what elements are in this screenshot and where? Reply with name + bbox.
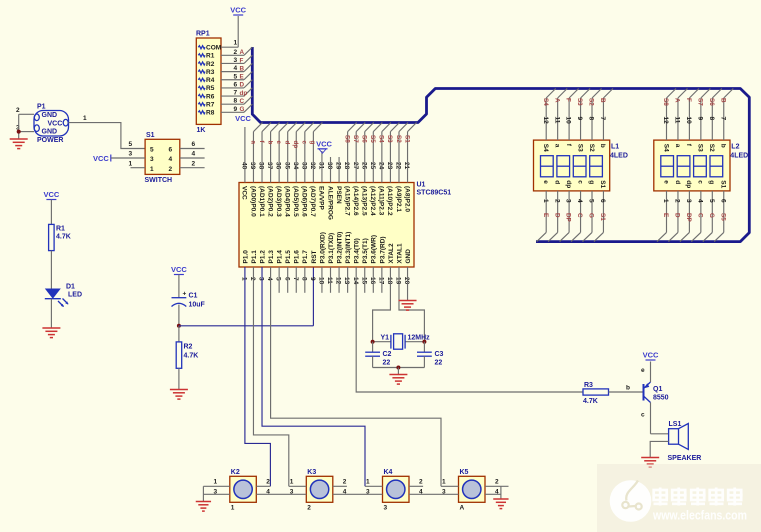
svg-text:36: 36	[275, 162, 282, 170]
svg-text:(A15)P2.7: (A15)P2.7	[343, 186, 350, 216]
wire L1 pin10 to bus (net F)	[565, 89, 579, 141]
svg-text:(A12)P2.4: (A12)P2.4	[369, 186, 376, 216]
svg-text:1: 1	[83, 115, 87, 122]
svg-text:SPEAKER: SPEAKER	[668, 455, 702, 462]
svg-text:A: A	[674, 98, 681, 103]
svg-text:2: 2	[343, 479, 347, 486]
svg-text:2: 2	[419, 479, 423, 486]
svg-text:(AD2)P0.2: (AD2)P0.2	[266, 186, 273, 217]
svg-text:S7: S7	[352, 135, 359, 143]
wire U1 pin13 P3.3 stub	[347, 267, 349, 293]
svg-text:18: 18	[386, 277, 393, 285]
svg-text:1: 1	[129, 160, 133, 167]
wire U1 pin10 P3.0 stub	[321, 267, 323, 293]
svg-text:POWER: POWER	[37, 137, 63, 144]
svg-text:13: 13	[343, 277, 350, 285]
svg-text:RP1: RP1	[196, 31, 210, 38]
wire node to R2	[178, 326, 180, 342]
pushbutton K3	[306, 469, 333, 512]
svg-text:35: 35	[283, 162, 290, 170]
svg-text:S6: S6	[361, 135, 368, 143]
svg-text:16: 16	[369, 277, 376, 285]
wire RP1 pin3 to bus (net F)	[221, 55, 252, 64]
svg-text:S2: S2	[588, 144, 595, 152]
svg-text:12: 12	[662, 117, 669, 125]
svg-text:PSEN: PSEN	[335, 186, 342, 204]
svg-text:40: 40	[241, 162, 248, 170]
U1 pin 23 number	[386, 162, 393, 170]
wire U1 pin22 P2.1 to bus (net S2)	[395, 123, 408, 183]
svg-text:D: D	[674, 213, 681, 218]
wire U1 pin30 ALE stub	[330, 157, 332, 183]
svg-text:S1: S1	[146, 132, 155, 139]
svg-text:S8: S8	[343, 135, 350, 143]
svg-text:(AD1)P0.1: (AD1)P0.1	[258, 186, 265, 217]
svg-text:d: d	[674, 180, 681, 184]
svg-text:2: 2	[16, 107, 20, 114]
svg-text:1: 1	[150, 166, 154, 173]
svg-text:S8: S8	[662, 98, 669, 106]
ground (crystal)	[389, 375, 407, 385]
svg-text:29: 29	[335, 162, 342, 170]
pushbutton K2	[230, 469, 256, 512]
svg-text:7: 7	[292, 277, 299, 281]
wire L1 pin9 to bus (net S3)	[576, 89, 590, 141]
svg-text:R2: R2	[184, 344, 193, 351]
wire S1 pin6 stub	[180, 141, 205, 148]
U1 pin 12 number	[335, 277, 342, 285]
svg-text:S5: S5	[369, 135, 376, 143]
svg-text:S3: S3	[697, 144, 704, 152]
svg-text:1: 1	[366, 479, 370, 486]
svg-text:F: F	[685, 98, 692, 102]
svg-text:1: 1	[241, 277, 248, 281]
svg-text:VCC: VCC	[316, 140, 332, 149]
wire U1 pin25 P2.4 to bus (net S5)	[369, 123, 382, 183]
wire L2 pin11 to bus (net A)	[674, 89, 688, 141]
svg-text:28: 28	[343, 162, 350, 170]
wire L2 pin4 to bus (net C)	[691, 191, 703, 242]
svg-text:VCC: VCC	[241, 186, 248, 200]
svg-text:A: A	[553, 98, 560, 103]
svg-text:4: 4	[697, 199, 704, 203]
svg-text:5: 5	[588, 199, 595, 203]
wire L2 pin5 to bus (net G)	[703, 191, 715, 242]
svg-text:3: 3	[150, 156, 154, 163]
svg-text:2: 2	[674, 199, 681, 203]
svg-text:20: 20	[403, 277, 410, 285]
svg-text:(A14)P2.6: (A14)P2.6	[352, 186, 359, 216]
wire RP1 pin1 to VCC	[221, 16, 238, 47]
svg-text:a: a	[249, 141, 256, 145]
svg-text:9: 9	[576, 117, 583, 121]
U1 pin 5 number	[275, 277, 282, 281]
svg-text:2: 2	[266, 479, 270, 486]
wire P1 pin1 to S1 pin5	[69, 115, 146, 149]
svg-text:22: 22	[383, 360, 391, 367]
svg-text:(A13)P2.5: (A13)P2.5	[361, 186, 368, 216]
svg-text:d: d	[284, 141, 291, 145]
svg-text:XTAL2: XTAL2	[388, 243, 395, 263]
svg-text:4: 4	[234, 65, 238, 72]
svg-text:S1: S1	[599, 180, 606, 188]
svg-text:23: 23	[386, 162, 393, 170]
U1 pin 25 number	[369, 162, 376, 170]
capacitor C2 22	[365, 342, 391, 368]
svg-text:e: e	[641, 367, 645, 374]
wire U1 pin15 P3.5 stub	[364, 267, 366, 293]
wire U1 pin7 P1.6 stub	[295, 267, 297, 293]
ground (LS1)	[641, 458, 659, 468]
svg-text:5: 5	[150, 147, 154, 154]
svg-text:1: 1	[290, 479, 294, 486]
svg-text:4LED: 4LED	[610, 153, 628, 160]
wire U1 pin28 P2.7 to bus (net S8)	[343, 123, 356, 183]
U1 pin 21 number	[403, 162, 410, 170]
svg-text:(AD5)P0.5: (AD5)P0.5	[292, 186, 299, 217]
svg-text:E: E	[542, 213, 549, 217]
junction RST node	[177, 324, 181, 328]
wire L1 pin12 to bus (net S4)	[542, 89, 556, 141]
wire U1 pin5 P1.4 stub	[278, 267, 280, 293]
svg-text:R8: R8	[206, 110, 215, 117]
wire U1 pin32 P0.7 to bus (net g)	[309, 123, 322, 183]
ground (U1 pin20)	[399, 301, 417, 311]
svg-text:(A9)P2.1: (A9)P2.1	[395, 186, 402, 212]
wire L2 pin9 to bus (net S7)	[697, 89, 711, 141]
wire VCC to S1 pin3	[111, 151, 145, 158]
svg-text:D: D	[553, 213, 560, 218]
svg-text:S6: S6	[708, 98, 715, 106]
U1 pin 29 number	[335, 162, 342, 170]
U1 pin 16 number	[369, 277, 376, 285]
U1 pin 40 number	[241, 162, 248, 170]
svg-text:STC89C51: STC89C51	[417, 190, 452, 197]
wire U1 pin38 P0.1 to bus (net f)	[258, 123, 271, 183]
svg-text:9: 9	[697, 117, 704, 121]
U1 pin 34 number	[292, 162, 299, 170]
svg-text:C3: C3	[435, 351, 444, 358]
wire U1 pin1 P1.0 to K2 (staircase)	[245, 267, 271, 486]
svg-text:R3: R3	[206, 69, 215, 76]
svg-text:P3.7(RD): P3.7(RD)	[379, 236, 386, 263]
wire U1 pin4 P1.3 to K5 (staircase)	[271, 267, 441, 486]
wire right rail drop	[500, 486, 502, 499]
wire U1 pin29 PSEN stub	[338, 157, 340, 183]
svg-text:2: 2	[249, 277, 256, 281]
svg-text:C2: C2	[383, 351, 392, 358]
svg-text:(AD6)P0.6: (AD6)P0.6	[301, 186, 308, 217]
svg-text:2: 2	[192, 160, 196, 167]
U1 pin 26 number	[360, 162, 367, 170]
power VCC port at S1 pin3	[93, 154, 111, 163]
svg-text:b: b	[599, 144, 606, 148]
LED D1	[45, 284, 82, 308]
svg-text:10: 10	[565, 117, 572, 125]
wire D1 to ground	[50, 299, 52, 328]
svg-text:S2: S2	[588, 98, 595, 106]
svg-text:c: c	[301, 141, 308, 145]
U1 pin 30 number	[326, 162, 333, 170]
svg-text:K2: K2	[231, 469, 240, 476]
svg-text:(AD3)P0.3: (AD3)P0.3	[275, 186, 282, 217]
U1 pin 37 number	[266, 162, 273, 170]
power VCC (EA/VPP)	[316, 140, 332, 154]
svg-text:A: A	[240, 49, 245, 56]
wire VCC to C1	[178, 275, 180, 298]
svg-text:32: 32	[309, 162, 316, 170]
svg-text:(A10)P2.2: (A10)P2.2	[386, 186, 393, 216]
wire L1 pin1 to bus (net E)	[537, 191, 549, 242]
svg-text:3: 3	[129, 151, 133, 158]
svg-text:e: e	[542, 180, 549, 184]
svg-text:dp: dp	[565, 180, 572, 188]
svg-text:g: g	[588, 180, 595, 184]
svg-text:(A11)P2.3: (A11)P2.3	[378, 186, 385, 216]
svg-text:S1: S1	[599, 213, 606, 221]
wire U1 pin6 P1.5 stub	[287, 267, 289, 293]
decorative watermark (not labeled further)	[597, 464, 761, 532]
svg-text:P3.4(T0): P3.4(T0)	[354, 238, 361, 263]
svg-text:VCC: VCC	[48, 120, 63, 127]
wire L2 pin8 to bus (net S6)	[708, 89, 722, 141]
svg-text:S2: S2	[395, 135, 402, 143]
crystal Y1 12MHz	[373, 334, 431, 349]
svg-text:S4: S4	[542, 144, 549, 152]
wire RP1 pin8 to bus (net C)	[221, 96, 252, 105]
svg-text:14: 14	[352, 277, 359, 285]
U1 pin 6 number	[283, 277, 290, 281]
svg-text:P3.2(INT0): P3.2(INT0)	[337, 232, 344, 264]
wire U1 pin16 P3.6 stub	[372, 267, 374, 293]
svg-text:E: E	[240, 74, 244, 81]
svg-text:R7: R7	[206, 101, 215, 108]
svg-text:VCC: VCC	[230, 6, 246, 15]
svg-text:10uF: 10uF	[189, 302, 206, 309]
svg-text:4: 4	[266, 277, 273, 281]
svg-text:G: G	[240, 106, 245, 113]
U1 pin 13 number	[343, 277, 350, 285]
wire L1 pin2 to bus (net D)	[548, 191, 560, 242]
svg-text:C: C	[576, 213, 583, 218]
svg-text:4: 4	[192, 151, 196, 158]
svg-text:2: 2	[553, 199, 560, 203]
svg-text:24: 24	[378, 162, 385, 170]
svg-text:c: c	[697, 180, 704, 184]
U1 pin 17 number	[378, 277, 385, 285]
svg-text:(AD0)P0.0: (AD0)P0.0	[249, 186, 256, 217]
svg-text:27: 27	[352, 162, 359, 170]
svg-text:3: 3	[234, 57, 238, 64]
wire K2 pin1 stub	[203, 479, 229, 487]
svg-text:4: 4	[576, 199, 583, 203]
svg-text:1: 1	[231, 505, 235, 512]
svg-text:P3.1(TXD): P3.1(TXD)	[328, 233, 335, 264]
U1 pin 32 number	[309, 162, 316, 170]
svg-text:12: 12	[542, 117, 549, 125]
svg-text:e: e	[662, 180, 669, 184]
wire L2 pin10 to bus (net F)	[685, 89, 699, 141]
wire RP1 pin7 to bus (net dp)	[221, 88, 252, 97]
svg-text:(A8)P2.0: (A8)P2.0	[403, 186, 410, 212]
svg-text:R6: R6	[206, 93, 215, 100]
svg-text:c: c	[641, 412, 645, 419]
op-amp U1 STC89C51 microcontroller	[239, 182, 451, 268]
svg-text:D1: D1	[66, 284, 75, 291]
svg-text:R2: R2	[206, 61, 215, 68]
svg-text:12MHz: 12MHz	[408, 334, 431, 341]
svg-text:VCC: VCC	[235, 114, 251, 123]
node VCC label at pin40	[235, 114, 251, 123]
svg-text:COM: COM	[206, 45, 221, 52]
svg-text:2: 2	[495, 479, 499, 486]
svg-text:b: b	[720, 144, 727, 148]
svg-text:XTAL1: XTAL1	[396, 243, 403, 263]
svg-text:Y1: Y1	[380, 334, 389, 341]
svg-text:B: B	[240, 65, 245, 72]
capacitor C3 22	[417, 342, 444, 368]
svg-text:6: 6	[719, 199, 726, 203]
svg-text:1K: 1K	[197, 127, 206, 134]
wire K3 pin1 stub	[289, 479, 307, 487]
svg-text:S4: S4	[378, 135, 385, 143]
svg-text:P1.2: P1.2	[259, 250, 266, 264]
svg-text:3: 3	[258, 277, 265, 281]
svg-text:ALE/PROG: ALE/PROG	[326, 186, 333, 220]
svg-text:K3: K3	[307, 469, 316, 476]
svg-text:G: G	[588, 213, 595, 218]
U1 pin 10 number	[318, 277, 325, 285]
svg-text:a: a	[554, 144, 561, 148]
wire U1 pin26 P2.5 to bus (net S6)	[361, 123, 374, 183]
wire L1 pin5 to bus (net G)	[583, 191, 595, 242]
svg-text:S7: S7	[697, 98, 704, 106]
U1 pin 2 number	[249, 277, 256, 281]
svg-text:5: 5	[129, 141, 133, 148]
svg-text:7: 7	[234, 90, 238, 97]
capacitor C1 10uF (polarized)	[172, 291, 206, 309]
wire U1 pin19 XTAL1 to crystal right node	[399, 267, 424, 342]
wire K5 pin3 label	[442, 488, 446, 495]
svg-text:3: 3	[685, 199, 692, 203]
wire L1 pin8 to bus (net S2)	[588, 89, 602, 141]
resistor pack RP1 1K	[196, 31, 221, 135]
resistor R3 4.7K	[583, 382, 609, 405]
ground (R2)	[170, 390, 188, 400]
svg-text:GND: GND	[42, 112, 58, 119]
wire U1 pin24 P2.3 to bus (net S4)	[378, 123, 391, 183]
wire RP1 pin4 to bus (net B)	[221, 63, 252, 72]
wire U1 pin2 P1.1 to K3 (staircase)	[253, 267, 288, 486]
wire K3 pin2 stub	[333, 479, 347, 487]
svg-text:RST: RST	[311, 250, 318, 263]
U1 pin 9 number	[309, 277, 316, 281]
svg-text:C: C	[697, 213, 704, 218]
svg-text:2: 2	[169, 166, 173, 173]
wire RST net: node to U1 pin9	[179, 267, 314, 326]
wire U1 pin36 P0.3 to bus (net e)	[275, 123, 288, 183]
U1 pin 19 number	[395, 277, 402, 285]
U1 pin 3 number	[258, 277, 265, 281]
svg-text:P1.5: P1.5	[285, 250, 292, 264]
U1 pin 11 number	[326, 277, 333, 284]
svg-text:8: 8	[234, 98, 238, 105]
wire S1 pin4 stub	[180, 151, 205, 158]
7-seg display L1 4LED	[534, 140, 628, 191]
svg-text:S3: S3	[386, 135, 393, 143]
svg-text:S1: S1	[403, 135, 410, 143]
wire Q1 collector to LS1	[651, 433, 669, 435]
svg-text:30: 30	[326, 162, 333, 170]
svg-text:1: 1	[442, 479, 446, 486]
wire U1 pin35 P0.4 to bus (net d)	[284, 123, 297, 183]
svg-text:39: 39	[249, 162, 256, 170]
svg-text:P1: P1	[37, 104, 46, 111]
svg-text:38: 38	[258, 162, 265, 170]
wire RP1 pin9 to bus (net G)	[221, 104, 252, 113]
svg-text:GND: GND	[405, 249, 412, 264]
ground (buttons left)	[196, 502, 211, 512]
svg-text:10: 10	[685, 117, 692, 125]
svg-text:d: d	[554, 180, 561, 184]
svg-text:c: c	[576, 180, 583, 184]
svg-text:4.7K: 4.7K	[583, 398, 598, 405]
svg-text:6: 6	[283, 277, 290, 281]
wire crystal bottom rail	[373, 367, 425, 369]
junction crystal left node	[371, 340, 375, 344]
wire crystal rail to ground	[397, 368, 399, 375]
svg-text:www.elecfans.com: www.elecfans.com	[652, 509, 747, 523]
wire R2 to ground	[178, 368, 180, 389]
svg-text:dp: dp	[685, 180, 692, 188]
wire L2 pin2 to bus (net D)	[668, 191, 680, 242]
wire K4 pin2 stub	[409, 479, 423, 487]
svg-text:R1: R1	[56, 226, 65, 233]
wire VCC to R1	[50, 200, 52, 225]
svg-text:2: 2	[234, 49, 238, 56]
svg-text:C: C	[240, 98, 245, 105]
svg-text:A: A	[460, 505, 465, 512]
svg-text:DP: DP	[565, 213, 572, 222]
svg-text:U1: U1	[417, 182, 426, 189]
svg-text:LED: LED	[68, 292, 82, 299]
svg-text:Q1: Q1	[653, 386, 662, 393]
speaker LS1	[668, 421, 702, 462]
svg-text:25: 25	[369, 162, 376, 170]
svg-text:11: 11	[674, 117, 681, 124]
wire U1 pin12 P3.2 stub	[338, 267, 340, 293]
svg-text:E: E	[662, 213, 669, 217]
wire left rail drop	[202, 486, 204, 501]
U1 pin 20 number	[403, 277, 410, 285]
pushbutton K4	[383, 469, 410, 512]
svg-text:VCC: VCC	[43, 190, 59, 199]
svg-text:26: 26	[360, 162, 367, 170]
wire U1 pin11 P3.1 stub	[330, 267, 332, 293]
svg-text:8: 8	[708, 117, 715, 121]
wire L1 pin11 to bus (net A)	[553, 89, 567, 141]
svg-text:a: a	[674, 144, 681, 148]
svg-text:4LED: 4LED	[730, 153, 748, 160]
U1 pin 24 number	[378, 162, 385, 170]
svg-text:VCC: VCC	[93, 154, 109, 163]
svg-text:3: 3	[565, 199, 572, 203]
svg-text:31: 31	[318, 162, 325, 170]
wire L1 pin6 to bus (net S1)	[594, 191, 606, 242]
ground (buttons right)	[493, 499, 508, 509]
svg-text:8: 8	[300, 277, 307, 281]
svg-text:P1.6: P1.6	[294, 250, 301, 264]
